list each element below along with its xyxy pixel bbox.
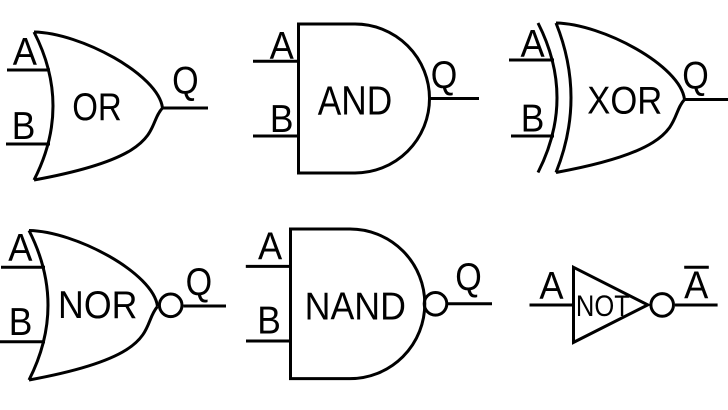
XOR gate extra input curve bbox=[538, 23, 557, 173]
svg-text:OR: OR bbox=[72, 86, 122, 129]
wire OR input B bbox=[6, 143, 50, 146]
NOT inversion bubble bbox=[651, 294, 674, 317]
svg-text:NAND: NAND bbox=[305, 285, 406, 328]
svg-text:B: B bbox=[257, 299, 281, 342]
svg-text:A: A bbox=[684, 264, 708, 307]
svg-text:NOT: NOT bbox=[576, 290, 630, 323]
svg-text:NOR: NOR bbox=[58, 284, 137, 327]
svg-text:Q: Q bbox=[431, 54, 458, 97]
svg-text:A: A bbox=[8, 227, 32, 270]
wire XOR input B bbox=[511, 135, 554, 138]
wire NAND input A bbox=[246, 265, 291, 268]
svg-text:B: B bbox=[521, 98, 545, 141]
NOT output inversion overbar bbox=[684, 266, 709, 269]
NAND inversion bubble bbox=[424, 293, 447, 316]
wire OR output Q bbox=[163, 107, 209, 110]
wire XOR output Q bbox=[685, 98, 728, 101]
NOR inversion bubble bbox=[159, 294, 182, 317]
svg-text:B: B bbox=[12, 105, 36, 148]
wire NAND input B bbox=[246, 340, 291, 343]
wire AND input B bbox=[253, 135, 299, 138]
svg-text:Q: Q bbox=[172, 60, 199, 103]
wire XOR input A bbox=[509, 59, 554, 62]
OR gate body bbox=[34, 32, 163, 180]
XOR gate body bbox=[556, 23, 685, 173]
wire NOT output bbox=[675, 304, 718, 307]
wire NOT input A bbox=[530, 304, 574, 307]
svg-text:A: A bbox=[13, 31, 37, 74]
svg-text:Q: Q bbox=[455, 256, 482, 299]
svg-text:A: A bbox=[539, 265, 563, 308]
wire NOR input B bbox=[0, 340, 45, 343]
svg-text:Q: Q bbox=[186, 261, 213, 304]
svg-text:XOR: XOR bbox=[587, 80, 662, 123]
svg-text:A: A bbox=[258, 225, 282, 268]
svg-text:Q: Q bbox=[682, 55, 709, 98]
NOT gate triangle body bbox=[574, 267, 648, 342]
svg-text:A: A bbox=[521, 23, 545, 66]
svg-text:AND: AND bbox=[318, 78, 393, 124]
svg-text:B: B bbox=[270, 98, 294, 141]
NAND gate body bbox=[291, 229, 425, 379]
wire NAND output Q bbox=[448, 302, 492, 305]
svg-text:A: A bbox=[270, 25, 294, 68]
AND gate body bbox=[299, 24, 430, 173]
wire NOR input A bbox=[1, 266, 45, 269]
wire AND output Q bbox=[430, 97, 480, 100]
wire AND input A bbox=[253, 60, 299, 63]
wire NOR output Q bbox=[184, 305, 227, 308]
svg-text:B: B bbox=[9, 301, 33, 344]
wire OR input A bbox=[7, 69, 50, 72]
NOR gate body bbox=[29, 231, 158, 381]
